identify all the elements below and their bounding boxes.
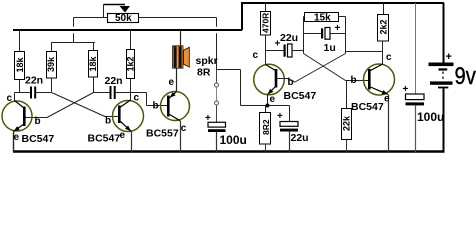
transistor Q3 BC547 [253,50,317,106]
svg-text:+: + [335,23,341,34]
svg-text:BC557: BC557 [146,128,179,140]
svg-text:e: e [384,94,390,105]
wire cross-coupling node B to Q1 base [26,93,94,118]
wire cross-coupling node R to Q3 base [288,54,346,83]
svg-text:100u: 100u [220,133,247,147]
wire node L vertical [303,17,305,54]
connector terminals on output line [215,70,219,123]
wire top positive rail right segment [241,2,444,4]
wire cross-coupling node L to Q4 base [304,54,369,81]
wire battery positive drop [443,3,445,63]
battery 9V [429,51,476,89]
wire Q3 emitter node to bypass [268,105,290,107]
capacitor 22n first [25,75,51,99]
svg-text:c: c [386,52,392,63]
capacitor 1u electrolytic [304,23,346,54]
transistor Q1 BC547 [2,93,54,152]
resistor 18k second [88,51,98,93]
svg-text:BC547: BC547 [351,101,384,113]
svg-text:b: b [35,116,41,127]
wire node R vertical [345,17,347,54]
wire base-resistor bracket [51,43,95,52]
svg-text:100u: 100u [417,110,444,124]
wire top positive rail left segment [13,29,242,31]
svg-text:1u: 1u [324,42,336,54]
svg-text:e: e [120,130,126,141]
svg-text:1k2: 1k2 [126,56,136,71]
svg-text:e: e [14,132,20,143]
svg-text:22u: 22u [291,132,309,144]
capacitor 100u right electrolytic [403,3,445,152]
svg-text:c: c [253,50,259,61]
resistor 470R (Q3 collector load) [260,3,270,65]
wire Q2 collector to BC557 base [147,93,168,106]
svg-text:22k: 22k [342,115,352,131]
svg-text:8R: 8R [197,67,211,79]
capacitor 22u second electrolytic [277,106,309,153]
transistor U1 BC557 PNP [146,77,190,152]
svg-text:c: c [134,93,140,104]
svg-text:15k: 15k [314,13,331,24]
resistor 8R2 emitter [260,106,271,153]
svg-text:18k: 18k [88,55,98,71]
svg-text:b: b [105,116,111,127]
wire bottom ground rail [13,150,445,152]
svg-text:e: e [270,94,276,105]
svg-text:+: + [446,51,452,63]
capacitor 22u first electrolytic [266,32,304,57]
node Q3 emitter junction [266,104,270,108]
svg-text:470R: 470R [260,13,270,33]
svg-text:b: b [153,101,159,112]
resistor 15k feedback [304,13,346,24]
svg-text:+: + [275,39,281,50]
potentiometer 50k [104,5,217,25]
svg-text:e: e [169,77,175,88]
capacitor 22n second [105,75,147,99]
svg-text:BC547: BC547 [88,133,121,145]
transistor Q2 BC547 [88,93,144,153]
wire cross-coupling node A to Q2 base [52,93,119,117]
svg-text:8R2: 8R2 [261,119,271,135]
transistor Q4 BC547 [351,52,395,152]
wire node R to Q4 collector [346,52,383,65]
svg-text:22u: 22u [280,32,298,44]
svg-text:b: b [288,77,294,88]
svg-text:c: c [181,123,187,134]
svg-text:50k: 50k [115,13,132,24]
wire pot left feed [74,18,108,43]
svg-text:22n: 22n [25,75,43,87]
svg-text:b: b [351,75,357,86]
capacitor 100u middle electrolytic [205,113,247,152]
svg-text:9v: 9v [455,62,476,89]
resistor 18k first (Q1 collector load) [15,30,25,93]
svg-text:c: c [7,93,13,104]
wire node B feed [94,92,110,94]
svg-text:39k: 39k [46,56,56,72]
wire pot wiper output branch [217,18,268,106]
svg-text:BC547: BC547 [22,133,55,145]
svg-text:18k: 18k [15,56,25,72]
svg-text:+: + [403,84,409,95]
resistor 1k2 (Q2 collector load) [126,30,136,100]
svg-text:22n: 22n [105,75,123,87]
resistor 2k2 (Q4 collector load) [378,3,389,52]
resistor 39k [46,52,56,93]
resistor 22k base bias [342,81,352,153]
wire rail step vertical [241,3,243,30]
wire Q1 collector node [15,93,31,101]
wire battery negative drop [443,88,445,152]
svg-text:spkr: spkr [196,55,218,67]
svg-text:2k2: 2k2 [379,19,389,34]
speaker spkr 8R [173,31,218,92]
svg-text:+: + [277,111,283,122]
svg-text:BC547: BC547 [284,90,317,102]
